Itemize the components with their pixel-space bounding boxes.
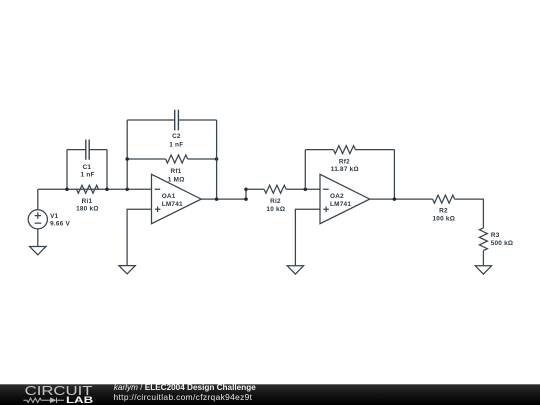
capacitor C2	[175, 110, 179, 131]
wire C1 branch left	[67, 149, 86, 151]
svg-text:1 nF: 1 nF	[81, 172, 95, 179]
wire OA1 plus input	[127, 209, 151, 265]
wire OA1 feedback right vertical	[216, 120, 218, 199]
logo doodle resistor	[23, 398, 50, 402]
svg-text:OA1: OA1	[162, 193, 176, 200]
svg-text:Ri2: Ri2	[270, 198, 281, 205]
svg-text:R3: R3	[491, 232, 500, 239]
footer bar	[0, 384, 540, 405]
node dot A3 feedback tap	[125, 187, 129, 191]
capacitor C1	[86, 140, 89, 160]
ground for V1	[30, 247, 46, 255]
svg-text:LM741: LM741	[330, 201, 351, 208]
svg-text:C2: C2	[172, 133, 181, 140]
wire Rf2 branch left	[305, 149, 333, 151]
svg-text:9.66 V: 9.66 V	[50, 221, 70, 228]
wire R3 to ground	[482, 251, 484, 266]
wire OA2 feedback left vertical	[304, 150, 306, 190]
svg-text:500 kΩ: 500 kΩ	[491, 240, 514, 247]
resistor Rf1	[166, 155, 188, 163]
wire Rf1 branch right	[188, 158, 217, 160]
node dot feedback left on Rf1 row	[125, 157, 129, 161]
wire C1 right vertical	[106, 150, 108, 190]
node dot feedback right on Rf1 row	[215, 157, 219, 161]
wire OA2 output	[370, 198, 433, 200]
svg-text:karlym / ELEC2004 Design Chall: karlym / ELEC2004 Design Challenge	[114, 383, 256, 392]
resistor R2	[433, 195, 455, 203]
wire OA1 feedback left vertical	[126, 120, 128, 189]
voltage source V1	[28, 210, 47, 229]
wire output step vertical	[245, 189, 247, 199]
svg-text:C1: C1	[83, 164, 92, 171]
svg-text:100 kΩ: 100 kΩ	[432, 216, 455, 223]
wire Rf1 branch left	[127, 158, 165, 160]
wire OA1 output	[201, 198, 246, 200]
wire C2 branch left	[127, 119, 175, 121]
node dot step top	[244, 187, 248, 191]
svg-text:http://circuitlab.com/cfzrqak9: http://circuitlab.com/cfzrqak94ez9t	[114, 392, 253, 402]
svg-text:180 kΩ: 180 kΩ	[76, 205, 99, 212]
svg-text:V1: V1	[50, 213, 59, 220]
svg-text:OA2: OA2	[330, 193, 344, 200]
wire to Ri2	[246, 188, 264, 190]
wire OA2 plus input	[295, 209, 320, 265]
logo LAB text	[66, 396, 93, 405]
node dot A2	[105, 187, 109, 191]
wire R2 to corner and down	[455, 199, 484, 228]
svg-text:1 MΩ: 1 MΩ	[168, 176, 185, 183]
ground for OA2	[287, 266, 303, 274]
svg-text:LAB: LAB	[66, 396, 93, 405]
svg-text:LM741: LM741	[162, 201, 183, 208]
resistor Ri1	[77, 185, 99, 193]
node dot at feedback join on output	[215, 197, 219, 201]
wire V1 top stub	[37, 189, 39, 210]
node dot step bottom	[244, 197, 248, 201]
svg-text:Ri1: Ri1	[82, 198, 93, 205]
svg-text:1 nF: 1 nF	[169, 141, 183, 148]
node dot OA2 input tap	[304, 187, 308, 191]
wire Rf2 branch right	[355, 149, 394, 151]
op-amp OA1	[152, 174, 202, 223]
svg-text:Rf2: Rf2	[339, 159, 350, 166]
node dot output feedback join	[393, 197, 397, 201]
op-amp OA2	[320, 174, 370, 223]
wire OA2 feedback right vertical	[393, 150, 395, 200]
wire C2 branch right	[178, 119, 216, 121]
wire Ri2 to OA2	[286, 188, 320, 190]
wire V1 bottom stub	[37, 229, 39, 247]
wire C1 branch right	[89, 149, 107, 151]
resistor Rf2	[333, 146, 355, 154]
logo CIRCUIT text	[25, 385, 93, 399]
resistor Ri2	[264, 185, 286, 193]
svg-text:Rf1: Rf1	[170, 168, 181, 175]
node dot A1	[65, 187, 69, 191]
ground for R3	[475, 266, 491, 274]
resistor R3	[479, 228, 487, 251]
wire C1 left vertical	[66, 150, 68, 190]
svg-text:11.87 kΩ: 11.87 kΩ	[331, 166, 359, 173]
logo doodle diode	[50, 398, 56, 404]
svg-text:10 kΩ: 10 kΩ	[266, 206, 285, 213]
svg-text:R2: R2	[439, 208, 448, 215]
wire main input net from V1 to OA1 minus	[38, 188, 152, 190]
ground for OA1	[119, 266, 135, 274]
